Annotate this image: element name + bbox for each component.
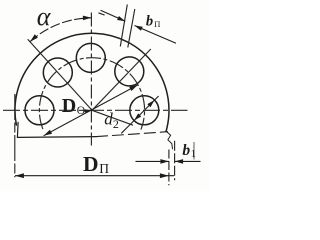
svg-text:П: П (154, 19, 160, 29)
svg-text:D: D (62, 95, 76, 117)
svg-text:О: О (77, 105, 85, 117)
svg-text:1: 1 (191, 148, 197, 160)
svg-text:П: П (99, 161, 109, 176)
svg-text:α: α (37, 2, 52, 31)
svg-text:D: D (83, 152, 99, 176)
svg-text:b: b (182, 142, 190, 159)
svg-text:b: b (146, 14, 153, 30)
svg-text:2: 2 (113, 117, 119, 131)
